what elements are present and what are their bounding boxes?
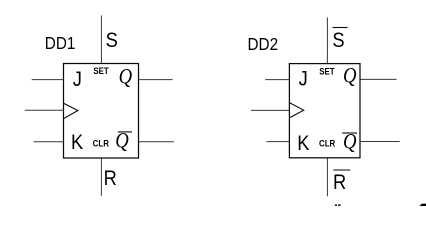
svg-text:R: R [104,167,117,191]
flip-flop body DD2 [289,64,360,158]
overline of S (DD2) [333,27,348,29]
svg-text:CLR: CLR [93,138,110,149]
overline of Q-bar (DD1) [118,131,132,133]
svg-text:J: J [73,67,82,91]
svg-text:DD2: DD2 [248,34,279,54]
wire DD1 S input (top) [100,15,102,63]
svg-text:SET: SET [319,66,335,77]
wire DD1 C clock input [25,109,64,111]
wire DD1 Q output [139,79,173,81]
svg-text:R: R [333,171,346,195]
wire DD1 R input (bottom) [100,158,102,196]
wire DD2 Q-bar output [360,141,400,143]
wire DD2 K input [266,141,289,143]
overline of R (DD2) [333,169,350,171]
svg-text:Q: Q [343,64,357,88]
svg-text:K: K [71,131,84,155]
wire DD2 S input (top) [326,17,328,63]
cut-off glyph fragment (quote-like marks) at bottom [335,204,337,206]
svg-text:SET: SET [93,66,109,77]
svg-text:J: J [299,67,308,91]
wire DD1 Q-bar output [139,141,174,143]
wire DD2 Q output [360,78,397,80]
svg-text:Q: Q [115,129,129,153]
wire DD2 R input (bottom) [326,158,328,197]
wire DD2 J input [265,79,289,81]
wire DD1 J input [32,79,64,81]
svg-text:K: K [297,132,310,156]
DD2 clock edge triangle [289,103,303,118]
wire DD1 K input [34,141,64,143]
svg-text:DD1: DD1 [45,33,76,53]
svg-text:S: S [332,29,344,53]
svg-text:Q: Q [119,65,133,89]
flip-flop body DD1 [64,64,139,159]
svg-text:Q: Q [343,130,357,154]
wire DD2 C clock input [251,109,290,111]
overline of Q-bar (DD2) [342,132,357,134]
cut-off bold glyph fragment at bottom-right corner [419,204,426,206]
svg-text:S: S [106,28,118,52]
svg-text:CLR: CLR [319,138,336,149]
DD1 clock edge triangle [64,103,78,119]
